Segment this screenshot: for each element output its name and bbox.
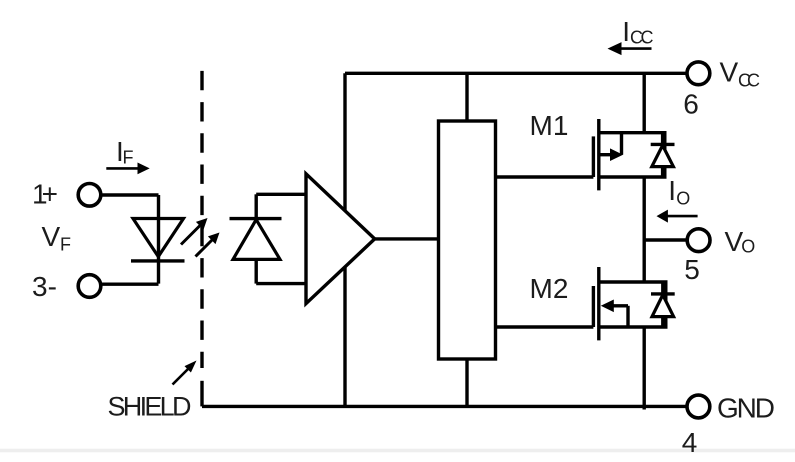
svg-text:SHIELD: SHIELD xyxy=(108,391,192,421)
svg-text:1+: 1+ xyxy=(32,179,58,210)
svg-text:O: O xyxy=(676,189,690,209)
svg-text:I: I xyxy=(622,16,630,47)
svg-text:4: 4 xyxy=(682,427,698,458)
svg-text:O: O xyxy=(741,237,755,257)
svg-text:3-: 3- xyxy=(32,271,57,302)
svg-text:F: F xyxy=(60,235,71,255)
svg-text:6: 6 xyxy=(683,89,699,120)
svg-text:M2: M2 xyxy=(530,273,569,304)
svg-text:V: V xyxy=(42,221,61,252)
svg-text:CC: CC xyxy=(738,71,760,91)
svg-text:CC: CC xyxy=(630,28,654,48)
svg-text:GND: GND xyxy=(717,392,775,423)
svg-text:F: F xyxy=(123,148,134,168)
svg-text:V: V xyxy=(720,57,739,88)
svg-text:I: I xyxy=(668,175,676,206)
svg-text:M1: M1 xyxy=(530,110,569,141)
svg-text:5: 5 xyxy=(684,254,700,285)
